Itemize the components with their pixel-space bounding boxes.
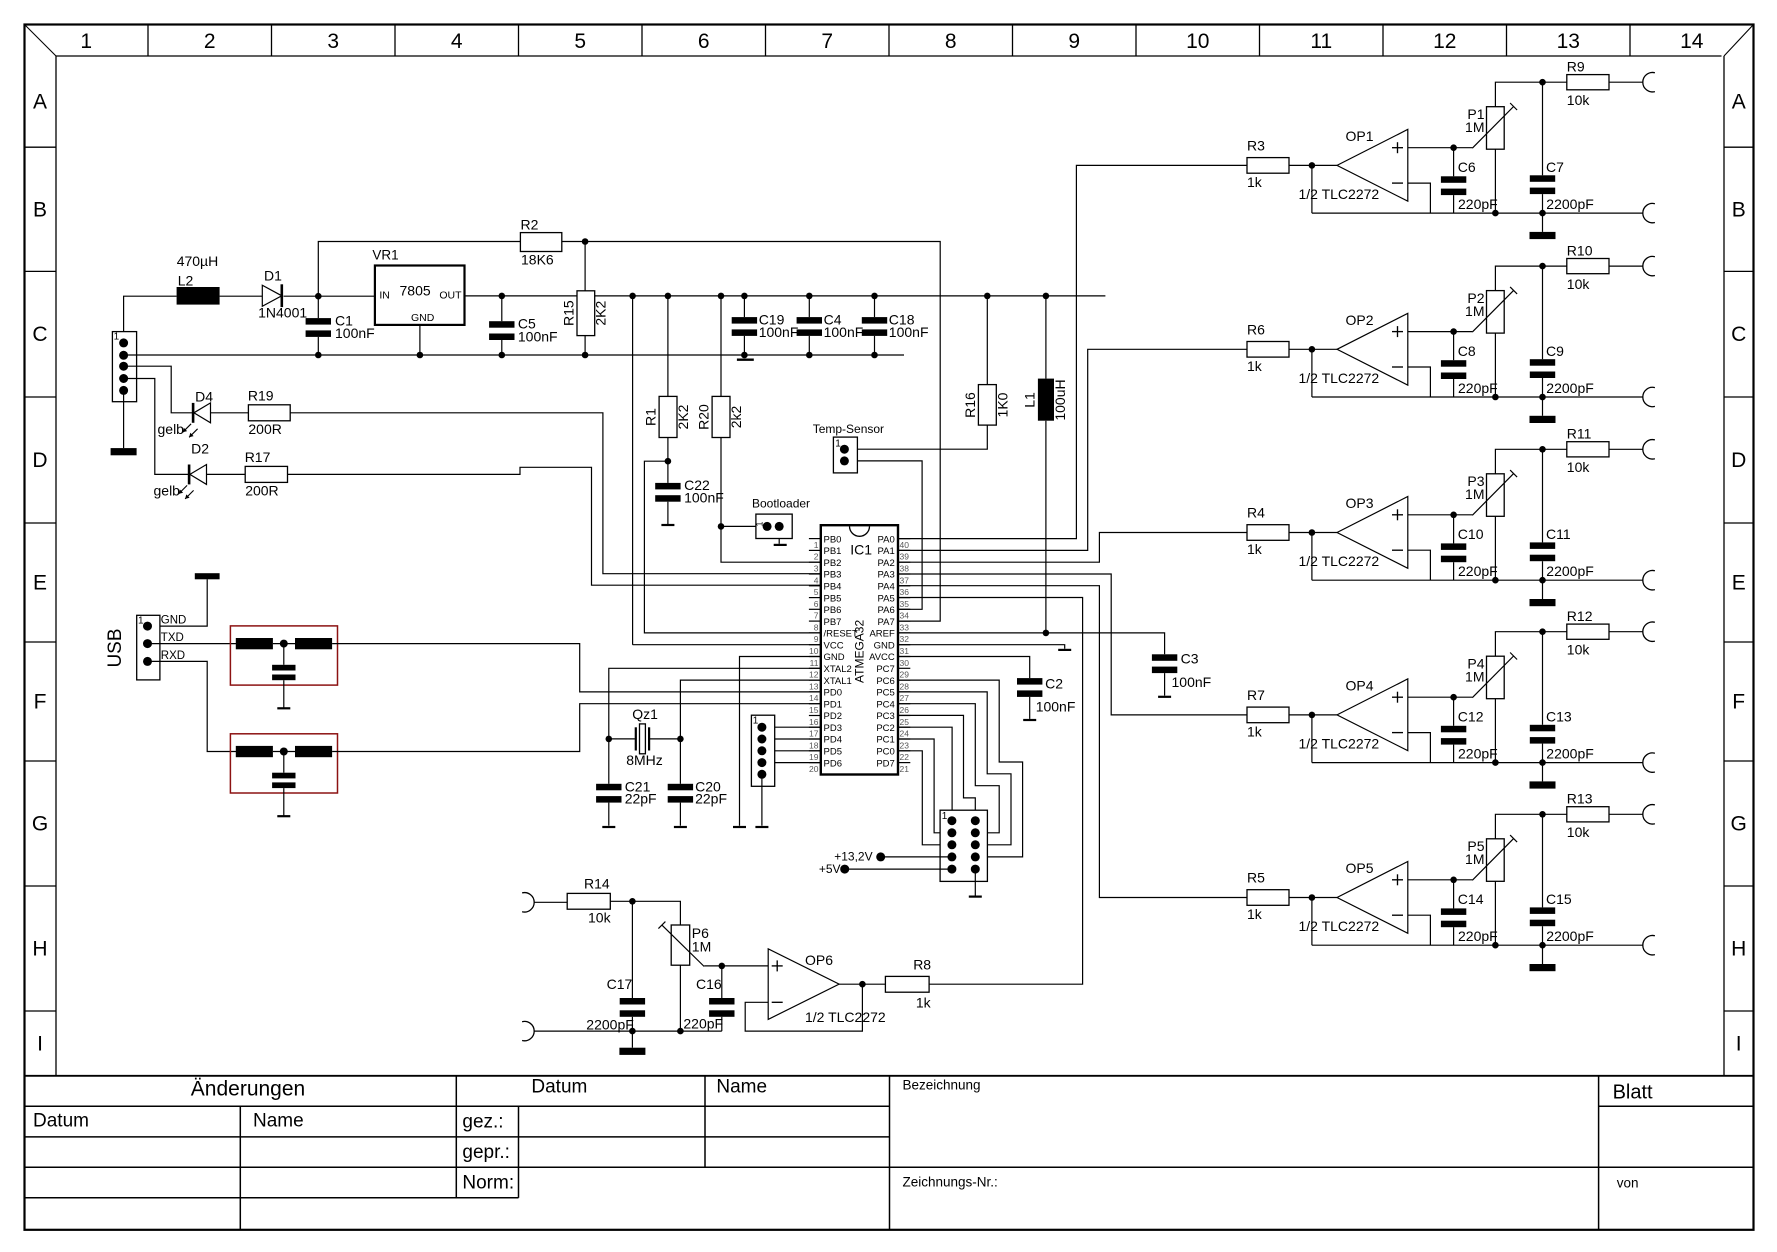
- label 1/2 TLC2272 OP6: [805, 1009, 886, 1025]
- ground channel 4: [1530, 781, 1556, 788]
- svg-text:H: H: [32, 938, 47, 961]
- svg-text:F: F: [1732, 691, 1745, 714]
- capacitor filter TXD: [272, 665, 295, 680]
- svg-text:39: 39: [900, 552, 910, 562]
- wire D2 to R17: [207, 473, 245, 475]
- svg-text:23: 23: [900, 740, 910, 750]
- svg-text:C13: C13: [1546, 708, 1572, 724]
- wire P4 bottom lead: [1494, 699, 1496, 763]
- label R1: [643, 408, 659, 426]
- label R20 2k2: [728, 406, 744, 429]
- svg-text:R17: R17: [245, 449, 271, 465]
- svg-text:1: 1: [835, 439, 841, 450]
- node input rail C1: [315, 293, 322, 300]
- wire GND rail: [124, 354, 904, 356]
- svg-text:25: 25: [900, 717, 910, 727]
- node C11 rail: [1539, 577, 1546, 584]
- label C21: [625, 779, 651, 795]
- svg-text:220pF: 220pF: [1458, 928, 1498, 944]
- label C5: [518, 316, 536, 332]
- wire USB TXD to filter: [148, 643, 237, 645]
- label R16: [962, 392, 978, 418]
- crystal Qz1 8MHz: [636, 724, 649, 754]
- svg-text:1K0: 1K0: [994, 392, 1010, 417]
- svg-text:PC6: PC6: [876, 676, 894, 687]
- label C18: [889, 312, 915, 328]
- svg-text:2K2: 2K2: [593, 301, 609, 326]
- svg-text:D: D: [1731, 449, 1746, 472]
- svg-text:+5V: +5V: [819, 862, 841, 876]
- label P5 1M: [1465, 851, 1484, 867]
- svg-text:34: 34: [900, 611, 910, 621]
- svg-text:100nF: 100nF: [889, 324, 929, 340]
- svg-text:PB2: PB2: [824, 558, 842, 569]
- label OP6: [805, 952, 833, 968]
- label R7: [1247, 687, 1265, 703]
- svg-text:Name: Name: [253, 1111, 304, 1132]
- capacitor C18 100nF: [862, 317, 887, 336]
- capacitor C14 220pF: [1441, 908, 1466, 927]
- label R15: [561, 300, 577, 326]
- svg-text:R1: R1: [643, 408, 659, 426]
- svg-text:14: 14: [809, 693, 819, 703]
- wire AVCC to C2: [898, 657, 1030, 679]
- label RXD: [161, 650, 185, 662]
- node OP6 output: [859, 981, 866, 988]
- wire ground lead C13: [1542, 763, 1544, 782]
- node L1 AREF: [1043, 630, 1050, 637]
- label R5 1k: [1247, 906, 1263, 922]
- wire R1 bottom to reset node: [667, 438, 669, 462]
- potentiometer P2 1M wiper: [1472, 287, 1517, 332]
- svg-text:PC7: PC7: [876, 664, 894, 675]
- wire filter cap bottom lead: [283, 788, 285, 816]
- label C19: [759, 312, 785, 328]
- label Temp-Sensor: [813, 422, 884, 436]
- label R10: [1567, 242, 1593, 258]
- svg-text:PA4: PA4: [878, 582, 895, 593]
- wire PA2 to channel3: [898, 533, 1247, 563]
- node C19 rail: [741, 293, 748, 300]
- label C11 2200pF: [1546, 563, 1593, 579]
- label R8 1k: [916, 995, 932, 1011]
- IC U1 ATMEGA32 body: [821, 525, 898, 774]
- node P2 top: [1539, 263, 1546, 270]
- label R10 10k: [1567, 276, 1591, 292]
- node R2 R15 junction: [582, 238, 589, 245]
- label 18K6: [521, 252, 554, 268]
- node C17 rail: [629, 1028, 636, 1035]
- potentiometer P5 1M body: [1487, 839, 1505, 882]
- node C18 rail: [871, 293, 878, 300]
- wire C11 top lead: [1542, 449, 1544, 542]
- ferrite bead RXDb: [295, 746, 332, 757]
- label C8 220pF: [1458, 380, 1498, 396]
- label P2 1M: [1465, 303, 1484, 319]
- svg-text:18K6: 18K6: [521, 252, 554, 268]
- wire C8 bottom lead: [1453, 379, 1455, 397]
- node C9 rail: [1539, 394, 1546, 401]
- svg-text:470µH: 470µH: [177, 253, 219, 269]
- svg-text:D2: D2: [191, 441, 209, 457]
- connector USB: [137, 615, 160, 680]
- svg-text:RXD: RXD: [161, 650, 185, 662]
- capacitor C6 220pF: [1441, 176, 1466, 195]
- resistor R5 1k: [1247, 890, 1289, 906]
- label R9 10k: [1567, 92, 1591, 108]
- svg-text:1k: 1k: [1247, 358, 1263, 374]
- wire VR1 GND lead: [419, 325, 421, 355]
- svg-text:9: 9: [814, 634, 819, 644]
- label C22: [684, 477, 710, 493]
- svg-text:1: 1: [753, 716, 759, 727]
- svg-text:1k: 1k: [1247, 723, 1263, 739]
- svg-text:AVCC: AVCC: [869, 652, 895, 663]
- label D4: [195, 389, 213, 405]
- wire R13 to connector: [1609, 813, 1643, 815]
- svg-text:PB7: PB7: [824, 617, 842, 628]
- svg-text:IN: IN: [379, 290, 390, 302]
- label C8: [1458, 343, 1476, 359]
- svg-text:VR1: VR1: [372, 248, 398, 263]
- capacitor C5 100nF: [489, 321, 514, 340]
- wire header pin3 to PD5: [762, 750, 821, 752]
- label IC1: [850, 542, 872, 558]
- wire C17 ground lead: [631, 1031, 633, 1048]
- svg-text:1k: 1k: [1247, 541, 1263, 557]
- wire PA4 to channel5: [898, 586, 1247, 898]
- svg-text:1k: 1k: [1247, 174, 1263, 190]
- svg-text:220pF: 220pF: [1458, 563, 1498, 579]
- svg-text:14: 14: [1680, 30, 1704, 53]
- LED D4 arrows: [183, 424, 198, 438]
- ground filter RXD: [277, 815, 290, 817]
- svg-text:C17: C17: [607, 976, 633, 992]
- label 1/2 TLC2272 OP5: [1299, 918, 1380, 934]
- svg-text:38: 38: [900, 564, 910, 574]
- label VR1: [372, 248, 398, 263]
- svg-text:Blatt: Blatt: [1613, 1082, 1653, 1104]
- label C10: [1458, 526, 1484, 542]
- wire to R11: [1543, 448, 1567, 450]
- label C21 22pF: [625, 791, 657, 807]
- svg-text:F: F: [34, 691, 47, 714]
- svg-text:28: 28: [900, 681, 910, 691]
- wire bead junction: [273, 751, 295, 753]
- node P3 top: [1539, 446, 1546, 453]
- wire USB RXD to filter: [148, 661, 237, 751]
- resistor R6 1k: [1247, 342, 1289, 358]
- potentiometer P2 1M body: [1487, 291, 1505, 334]
- svg-text:C7: C7: [1546, 159, 1564, 175]
- label 1N4001: [258, 305, 307, 321]
- label P1 1M: [1465, 119, 1484, 135]
- label R13: [1567, 791, 1593, 807]
- label 200R R17: [245, 483, 278, 499]
- svg-text:6: 6: [698, 30, 710, 53]
- capacitor C19 100nF: [732, 317, 757, 336]
- svg-text:32: 32: [900, 634, 910, 644]
- label D2: [191, 441, 209, 457]
- svg-text:AREF: AREF: [869, 629, 895, 640]
- label R5: [1247, 870, 1265, 886]
- wire C20 bottom lead: [679, 803, 681, 826]
- wire R20 bottom to PB2: [721, 438, 821, 563]
- connector output 3b: [1643, 570, 1655, 589]
- svg-text:10k: 10k: [588, 910, 612, 926]
- svg-text:L1: L1: [1021, 392, 1037, 408]
- svg-text:1/2 TLC2272: 1/2 TLC2272: [1299, 553, 1380, 569]
- svg-text:1/2 TLC2272: 1/2 TLC2272: [1299, 735, 1380, 751]
- svg-text:PC3: PC3: [876, 711, 894, 722]
- svg-text:11: 11: [1310, 30, 1332, 53]
- svg-text:1: 1: [814, 540, 819, 550]
- ground Bootloader: [774, 544, 787, 546]
- connector output 3a: [1643, 440, 1655, 459]
- wire PC1 to header left pin2: [898, 739, 952, 833]
- resistor R11 10k: [1567, 442, 1609, 457]
- svg-text:1M: 1M: [692, 939, 711, 955]
- label OP2: [1346, 312, 1374, 328]
- svg-text:12: 12: [809, 670, 819, 680]
- wire R2 right to PA7: [562, 242, 940, 622]
- ground channel 3: [1530, 599, 1556, 606]
- op-amp OP4 1/2 TLC2272: [1337, 679, 1408, 751]
- wire R19 to PB3: [290, 413, 821, 574]
- connector output 1a: [1643, 73, 1655, 92]
- wire R10 to connector: [1609, 265, 1643, 267]
- label C18 100nF: [889, 324, 929, 340]
- op-amp OP3 1/2 TLC2272: [1337, 497, 1408, 569]
- IC1 pin stubs: [809, 539, 910, 763]
- wire bead junction: [273, 643, 295, 645]
- svg-text:7: 7: [814, 611, 819, 621]
- wire node to VR1 IN: [318, 295, 375, 297]
- svg-text:R3: R3: [1247, 137, 1265, 153]
- IC1 pin names: [824, 534, 895, 769]
- wire header pin2 to PD4: [762, 738, 821, 740]
- svg-text:C6: C6: [1458, 159, 1476, 175]
- wire C18 top lead: [874, 296, 876, 317]
- svg-text:1: 1: [114, 332, 120, 343]
- svg-text:PC5: PC5: [876, 688, 894, 699]
- connector JP1 2x5 header: [940, 810, 987, 881]
- svg-text:R16: R16: [962, 392, 978, 418]
- wire channel rail: [1312, 212, 1643, 214]
- svg-text:GND: GND: [824, 652, 845, 663]
- wire bootloader pin2 ground stub: [778, 539, 780, 544]
- node R1 rail: [665, 293, 672, 300]
- label R8: [913, 957, 931, 973]
- svg-text:gelb: gelb: [158, 421, 185, 437]
- wire C9 top lead: [1542, 266, 1544, 359]
- capacitor C1 100nF: [306, 318, 331, 337]
- svg-text:XTAL1: XTAL1: [824, 676, 852, 687]
- label R17: [245, 449, 271, 465]
- label R1 2K2: [675, 404, 691, 429]
- svg-text:/RESET: /RESET: [824, 629, 859, 640]
- wire PA5 to OP6 output: [898, 598, 1083, 985]
- wire C13 top lead: [1542, 632, 1544, 725]
- wire P1 bottom lead: [1494, 149, 1496, 213]
- svg-text:G: G: [1731, 813, 1747, 836]
- connector output 4b: [1643, 753, 1655, 772]
- wire R15 top lead: [584, 242, 586, 291]
- svg-text:R9: R9: [1567, 58, 1585, 74]
- node filter TXD: [280, 640, 288, 648]
- resistor R3 1k: [1247, 158, 1289, 174]
- svg-text:17: 17: [809, 729, 819, 739]
- node crystal right: [677, 736, 684, 743]
- wire R17 to PB4: [288, 467, 821, 585]
- resistor R2 18K6: [520, 233, 561, 252]
- wire to R9: [1543, 81, 1567, 83]
- node R7 output: [1309, 712, 1316, 719]
- connector SV1 5-pin header: [751, 715, 774, 786]
- wire GND pin11 to ground: [740, 657, 821, 826]
- wire node to P1 wiper: [1454, 147, 1473, 149]
- wire VCC pin to +5V rail: [633, 296, 821, 645]
- wire C6 bottom lead: [1453, 195, 1455, 213]
- svg-text:26: 26: [900, 705, 910, 715]
- node R14 junction: [629, 898, 636, 905]
- svg-text:A: A: [33, 91, 47, 114]
- svg-text:C14: C14: [1458, 891, 1484, 907]
- svg-text:D1: D1: [264, 268, 282, 284]
- label C7: [1546, 159, 1564, 175]
- wire OP1 output down: [1311, 165, 1313, 213]
- label C15: [1546, 891, 1572, 907]
- ground C2: [1023, 719, 1036, 721]
- svg-text:220pF: 220pF: [1458, 196, 1498, 212]
- label OUT: [439, 290, 462, 302]
- svg-text:PA6: PA6: [878, 605, 895, 616]
- svg-text:Datum: Datum: [531, 1077, 587, 1098]
- svg-text:5: 5: [814, 587, 819, 597]
- label C11: [1546, 526, 1571, 542]
- svg-text:PA5: PA5: [878, 593, 895, 604]
- wire PA0 to channel1: [898, 165, 1247, 538]
- svg-text:100uH: 100uH: [1052, 379, 1068, 420]
- label C5 100nF: [518, 329, 558, 345]
- wire D1 to node: [284, 295, 319, 297]
- label R11 10k: [1567, 459, 1591, 475]
- node OP4 +input: [1450, 694, 1457, 701]
- capacitor C22 100nF: [655, 483, 680, 502]
- svg-text:10: 10: [1186, 30, 1209, 53]
- wire XTAL2 to crystal: [609, 668, 821, 739]
- svg-text:C12: C12: [1458, 708, 1484, 724]
- label C16 220pF: [683, 1016, 723, 1032]
- svg-text:100nF: 100nF: [518, 329, 558, 345]
- svg-text:PA0: PA0: [878, 534, 895, 545]
- wire connector pin5 to ground: [123, 390, 125, 448]
- wire C14 bottom lead: [1453, 927, 1455, 945]
- svg-text:4: 4: [814, 575, 819, 585]
- node R1 C22 reset: [665, 458, 672, 465]
- svg-text:C15: C15: [1546, 891, 1572, 907]
- wire header right pin5 ground: [974, 869, 976, 895]
- label C20: [695, 779, 721, 795]
- label C12: [1458, 708, 1484, 724]
- svg-text:PB6: PB6: [824, 605, 842, 616]
- node P1 bottom rail: [1492, 210, 1499, 217]
- svg-text:10k: 10k: [1567, 824, 1591, 840]
- ground power connector: [111, 448, 137, 455]
- svg-text:Zeichnungs-Nr.:: Zeichnungs-Nr.:: [903, 1175, 998, 1190]
- svg-text:C10: C10: [1458, 526, 1484, 542]
- label OP1: [1346, 128, 1374, 144]
- svg-text:31: 31: [900, 646, 910, 656]
- node C19 gnd: [741, 352, 748, 359]
- svg-text:R2: R2: [521, 217, 539, 233]
- wire R15 bottom lead: [584, 336, 586, 355]
- op-amp OP5 1/2 TLC2272: [1337, 862, 1408, 934]
- svg-text:1/2 TLC2272: 1/2 TLC2272: [1299, 370, 1380, 386]
- label +5V: [819, 862, 841, 876]
- label C17: [607, 976, 633, 992]
- wire node to P3 wiper: [1454, 514, 1473, 516]
- ferrite bead TXDb: [295, 638, 332, 649]
- wire R16 bottom to temp pin1: [844, 425, 987, 449]
- node L1 rail: [1043, 293, 1050, 300]
- label C4 100nF: [824, 324, 864, 340]
- capacitor C12 220pF: [1441, 726, 1466, 745]
- label 1/2 TLC2272 OP4: [1299, 735, 1380, 751]
- node R3 output: [1309, 162, 1316, 169]
- wire R6 to op-amp: [1289, 348, 1337, 350]
- wire OP2 +input to node: [1408, 331, 1454, 333]
- wire C15 bottom lead: [1542, 926, 1544, 945]
- label C10 220pF: [1458, 563, 1498, 579]
- connector X1 power input 5-pin: [112, 332, 136, 402]
- label R7 1k: [1247, 723, 1263, 739]
- label C9 2200pF: [1546, 380, 1593, 396]
- svg-text:10k: 10k: [1567, 92, 1591, 108]
- capacitor C11 2200pF: [1530, 542, 1555, 561]
- wire C16 bottom lead: [721, 1017, 723, 1031]
- label R2: [521, 217, 539, 233]
- label 1/2 TLC2272 OP1: [1299, 186, 1380, 202]
- connector output 5a: [1643, 805, 1655, 824]
- svg-text:PB4: PB4: [824, 582, 842, 593]
- svg-text:E: E: [33, 572, 47, 595]
- wire connector pin3 to D4 anode: [124, 366, 194, 413]
- wire C17 bottom lead: [631, 1017, 633, 1031]
- svg-text:PD4: PD4: [824, 735, 842, 746]
- wire C7 top lead: [1542, 82, 1544, 175]
- svg-text:OP4: OP4: [1346, 677, 1374, 693]
- svg-text:1M: 1M: [1465, 668, 1484, 684]
- label C1 100nF: [335, 325, 375, 341]
- label R9: [1567, 58, 1585, 74]
- node C7 rail: [1539, 210, 1546, 217]
- label gelb D4: [158, 421, 185, 437]
- label P6: [692, 925, 709, 941]
- LED D4 gelb: [193, 403, 210, 423]
- wire PA3 to channel4: [898, 574, 1247, 715]
- svg-text:2K2: 2K2: [675, 404, 691, 429]
- svg-text:2: 2: [814, 552, 819, 562]
- svg-text:30: 30: [900, 658, 910, 668]
- voltage regulator VR1 7805: [375, 266, 465, 325]
- node C18 gnd: [871, 352, 878, 359]
- node OP2 +input: [1450, 328, 1457, 335]
- wire C6 top lead: [1453, 148, 1455, 177]
- svg-text:PD2: PD2: [824, 711, 842, 722]
- wire PC5 to header right pin3: [898, 692, 1011, 845]
- potentiometer P1 1M body: [1487, 107, 1505, 150]
